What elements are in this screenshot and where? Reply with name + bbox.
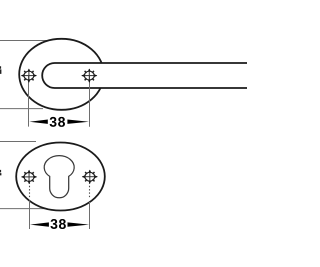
extension line below ellipse left bbox=[29, 200, 31, 229]
dotted line below right screw bbox=[89, 183, 91, 198]
extension line from right screw bbox=[89, 76, 91, 127]
screw S4 (bottom right) bbox=[82, 170, 98, 184]
screw S1 (top left) bbox=[21, 69, 37, 83]
extension line: escutcheon bottom tangent (left dim, cut off) bbox=[0, 208, 47, 210]
dimension line 38 (bottom) right arrow bbox=[68, 222, 90, 226]
extension line: rosette bottom tangent (left dim, cut off) bbox=[0, 108, 43, 110]
keyhole (euro profile cylinder) bbox=[44, 156, 74, 198]
extension line below ellipse right bbox=[89, 202, 91, 229]
dimension text 38 (bottom) bbox=[50, 219, 65, 229]
dotted line below left screw bbox=[29, 183, 31, 199]
dim text 5 (cut off at left edge, bottom) bbox=[0, 170, 1, 176]
dimension text 38 (top) bbox=[50, 117, 65, 127]
lever handle bbox=[42, 63, 247, 88]
dim text 5 (cut off at left edge) bbox=[0, 66, 1, 74]
extension line: rosette top tangent (left dim, cut off) bbox=[0, 40, 47, 42]
screw S3 (bottom left) bbox=[21, 170, 37, 184]
dimension line 38 (bottom) left arrow bbox=[30, 222, 49, 226]
dimension line 38 (top) left arrow bbox=[29, 120, 47, 124]
screw S2 (top right, on handle) bbox=[81, 69, 97, 83]
extension line from left screw bbox=[28, 76, 30, 127]
dimension line 38 (top) right arrow bbox=[67, 120, 89, 124]
escutcheon ellipse bbox=[16, 143, 105, 211]
extension line: escutcheon top tangent (left dim, cut off) bbox=[0, 141, 36, 143]
rosette ellipse bbox=[19, 39, 104, 110]
